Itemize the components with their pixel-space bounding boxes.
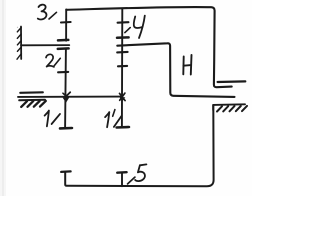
leader 1prime xyxy=(114,116,122,127)
gear 1 bar xyxy=(60,127,72,130)
wire top bar and right upper member xyxy=(66,7,231,87)
fixed wall left xyxy=(20,27,22,60)
shaft column 1 upper xyxy=(65,10,67,41)
gear 1prime bar xyxy=(117,126,129,129)
label 3 xyxy=(38,5,47,20)
leader 4 xyxy=(125,28,130,33)
gear 5 ring wire bottom and right member xyxy=(65,105,213,186)
wall hatch xyxy=(17,28,21,32)
node arrow gear1prime shaft xyxy=(120,93,126,100)
label H xyxy=(182,57,184,75)
label 5 xyxy=(140,163,147,166)
leader 1 xyxy=(52,114,60,124)
ground right xyxy=(213,104,245,110)
wall shaft wire xyxy=(21,44,69,46)
leader 2 xyxy=(54,58,60,66)
bearing bar left xyxy=(20,91,43,94)
gear 3 tick xyxy=(61,21,71,24)
leader 5 xyxy=(128,177,135,184)
label 1prime xyxy=(105,112,109,127)
gear 5 rim right tick stem xyxy=(121,173,123,187)
scan edge shade left xyxy=(0,0,6,196)
gear tick mid column 2 xyxy=(118,65,127,68)
main shaft wire xyxy=(18,96,122,98)
gear 4 rim bar xyxy=(117,36,129,39)
shaft column 1 lower xyxy=(64,49,67,128)
label 2 xyxy=(46,54,54,67)
node arrow gear1 shaft xyxy=(67,92,71,96)
node arrowhead gear1 xyxy=(63,97,70,103)
gear 2 rim bar xyxy=(58,47,69,50)
wire bar A right output upper xyxy=(218,80,246,83)
leader 3 xyxy=(49,12,57,19)
shaft column 2 xyxy=(121,9,123,128)
gear tick below arm xyxy=(117,51,127,54)
gear 3 rim bar xyxy=(58,39,68,42)
speck xyxy=(17,27,18,28)
gear 5 rim left tick xyxy=(61,170,70,173)
gear 2 tick xyxy=(58,71,68,74)
gear 5 rim right tick bar xyxy=(117,171,126,174)
node arrowhead gear1prime xyxy=(120,97,126,101)
label 4 xyxy=(134,17,142,28)
gear 4 tick xyxy=(118,21,129,24)
label 1 xyxy=(45,111,49,127)
carrier H frame xyxy=(117,43,234,97)
ground left xyxy=(19,99,45,102)
